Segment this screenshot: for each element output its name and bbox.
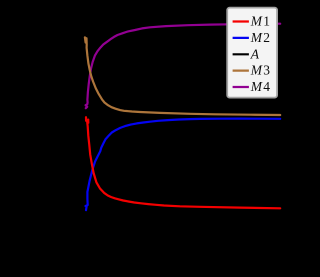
curve M2 (blue) [86, 119, 281, 211]
svg-text:M2: M2 [250, 30, 270, 45]
legend box [227, 8, 277, 98]
legend handle M3 (brown) [233, 69, 249, 71]
legend handle M2 (blue) [233, 37, 249, 39]
svg-text:M1: M1 [250, 14, 270, 29]
svg-text:M4: M4 [250, 79, 270, 94]
curve M4 (purple) [86, 24, 281, 109]
legend handle A (black) [233, 53, 249, 55]
legend handle M4 (purple) [233, 86, 249, 88]
curve M3 (brown) [85, 37, 280, 115]
curve A (black, invisible on black background) [86, 253, 281, 255]
legend handle M1 (red) [233, 20, 249, 22]
svg-text:A: A [250, 46, 260, 61]
curve M1 (red) [86, 117, 280, 208]
svg-text:M3: M3 [250, 63, 270, 78]
